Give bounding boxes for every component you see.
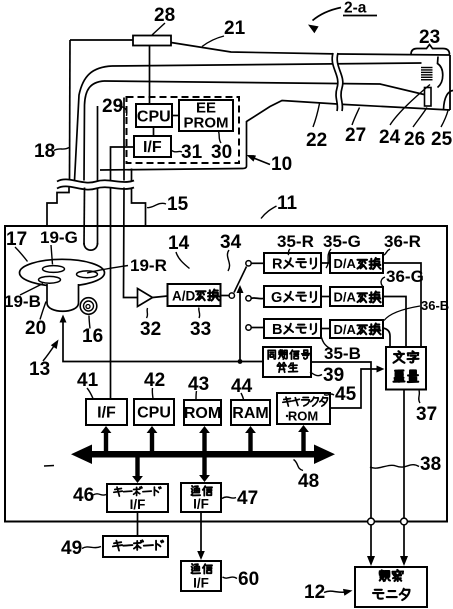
wire Bmem to D/A [321, 328, 330, 330]
svg-text:10: 10 [271, 154, 292, 175]
bus arrow down to keyboard I/F 46 [132, 456, 143, 483]
bus arrow to ROM 43 [199, 426, 210, 452]
svg-text:39: 39 [323, 365, 344, 386]
svg-text:I/F: I/F [130, 497, 146, 512]
svg-text:18: 18 [34, 141, 55, 162]
svg-text:CPU: CPU [137, 109, 171, 126]
wire char ROM to overlay with arrow [330, 369, 382, 408]
wire comm I/F to external comm I/F [200, 512, 202, 556]
bracket over tip 23 [411, 45, 450, 55]
svg-text:12: 12 [304, 582, 325, 603]
scope handle right edge [246, 121, 248, 166]
video signal wire behind dashed box (upper part) [123, 98, 125, 181]
keyboard box 49 [103, 536, 168, 557]
curved lens face at tip [438, 57, 443, 88]
wire node to R memory [251, 262, 264, 264]
svg-text:48: 48 [298, 471, 319, 492]
svg-text:15: 15 [167, 194, 189, 215]
wire CPU to EE PROM [172, 115, 179, 117]
junction dot on sync line [238, 359, 243, 364]
scope handle outer curve into cable [75, 66, 113, 181]
svg-text:46: 46 [73, 485, 94, 506]
svg-text:I/F: I/F [97, 405, 116, 422]
switch node B [246, 325, 251, 330]
svg-text:A/D: A/D [172, 289, 196, 304]
svg-text:21: 21 [224, 18, 246, 39]
scope tube bottom edge and handle right slant [247, 101, 451, 122]
svg-text:35-B: 35-B [324, 344, 361, 363]
wire amp to A/D [153, 296, 168, 298]
svg-text:14: 14 [168, 233, 190, 254]
svg-text:ROM: ROM [184, 405, 221, 422]
svg-text:I/F: I/F [193, 497, 209, 512]
connector 15 left outline [47, 188, 69, 226]
filter 19-R [77, 271, 98, 278]
svg-text:11: 11 [277, 193, 298, 214]
svg-text:30: 30 [211, 142, 232, 163]
CPU box 42 [134, 399, 174, 425]
svg-text:47: 47 [237, 488, 258, 509]
R memory box 35-R [264, 253, 321, 273]
wire D/A-G output to char overlay [383, 297, 406, 348]
signal wire from scope I/F down (upper part) [111, 147, 135, 181]
I/F box 41 [86, 399, 127, 425]
wire keyboard I/F to keyboard [137, 512, 139, 536]
wire Gmem to D/A [321, 296, 330, 298]
connector 15 right outline [132, 188, 146, 226]
switch node R [246, 261, 251, 266]
switch control wire from sync [239, 288, 241, 362]
character ROM box 45 [277, 393, 330, 424]
scope tip right edge [449, 55, 451, 110]
svg-text:16: 16 [82, 326, 103, 347]
svg-text:60: 60 [238, 569, 259, 590]
filter 19-B [39, 276, 61, 283]
ROM box 43 [184, 400, 221, 425]
svg-text:D/A: D/A [334, 290, 357, 305]
svg-text:24: 24 [379, 127, 401, 148]
sync output wire to monitor [311, 362, 371, 518]
D/A converter B 36-B [330, 320, 383, 338]
svg-text:38: 38 [420, 454, 441, 475]
svg-text:D/A: D/A [334, 322, 357, 337]
dashed controller box 10 [127, 97, 240, 163]
svg-text:45: 45 [335, 384, 357, 405]
bus arrow to I/F 41 [101, 426, 112, 452]
light guide right wall into box [97, 188, 99, 245]
svg-text:22: 22 [306, 130, 327, 151]
svg-text:20: 20 [25, 318, 46, 339]
corner lens arc 25 [444, 91, 453, 110]
light-guide right wall upper part [97, 106, 99, 181]
wire CPU to I/F [153, 127, 155, 136]
scope handle bottom edge [100, 166, 247, 170]
svg-text:B: B [272, 322, 282, 338]
switch arm 34 [234, 267, 247, 293]
connector-15 right wall above break [131, 169, 133, 181]
plug 28 [133, 36, 171, 46]
wire plug-28 drop to CPU [149, 45, 151, 104]
system bus 48 [82, 451, 324, 458]
svg-text:RAM: RAM [232, 405, 268, 422]
svg-text:33: 33 [190, 319, 211, 340]
wire D/A-R output to char overlay [383, 263, 421, 347]
svg-text:2-a: 2-a [344, 0, 367, 17]
scope handle inner line to tube tip [104, 81, 424, 95]
svg-text:25: 25 [431, 129, 453, 150]
svg-text:35-R: 35-R [277, 232, 314, 251]
keyboard I/F box 46 [107, 484, 168, 512]
scope I/F box [134, 136, 171, 157]
RAM box 44 [231, 400, 270, 425]
svg-text:17: 17 [6, 229, 27, 250]
svg-text:42: 42 [144, 370, 165, 391]
svg-text:D/A: D/A [334, 256, 357, 271]
cable break wavy band [57, 179, 134, 189]
bus arrow down to comm I/F 47 [199, 456, 210, 482]
wire D/A-B output to char overlay [383, 328, 390, 347]
svg-text:I/F: I/F [193, 576, 209, 591]
svg-text:31: 31 [181, 142, 203, 163]
scope EE PROM box [179, 100, 233, 131]
B memory box 35-B [264, 319, 321, 338]
svg-text:49: 49 [61, 538, 82, 559]
lens element 26 small rect [425, 88, 432, 107]
svg-text:19-B: 19-B [4, 292, 41, 311]
svg-text:34: 34 [220, 232, 242, 253]
scope insertion-tube top edge [171, 43, 450, 56]
D/A converter R 36-R [330, 253, 383, 273]
filter 19-G [43, 266, 65, 273]
scope handle inner curve into light guide [84, 81, 104, 181]
svg-text:36-B: 36-B [421, 298, 449, 313]
svg-text:37: 37 [416, 404, 437, 425]
svg-text:36-R: 36-R [384, 232, 421, 251]
svg-text:19-R: 19-R [130, 256, 167, 275]
sync signal generator box 39 [263, 347, 311, 377]
svg-text:PROM: PROM [184, 115, 229, 132]
character overlay box 37 [386, 347, 426, 390]
svg-text:36-G: 36-G [386, 267, 424, 286]
rotary filter wheel 17 [20, 259, 105, 286]
svg-text:ROM: ROM [288, 409, 318, 424]
svg-text:35-G: 35-G [323, 232, 361, 251]
svg-text:27: 27 [345, 125, 366, 146]
A/D converter box 33 [168, 284, 221, 306]
motor 20 body [47, 284, 79, 311]
A/D output node [221, 295, 230, 297]
D/A converter G 36-G [330, 287, 383, 306]
overlay arrow to monitor [403, 525, 405, 562]
wire node to B memory [251, 327, 264, 329]
video wire through connector down to amp [124, 188, 138, 298]
bus arrow to character ROM 45 [298, 425, 309, 452]
svg-text:G: G [271, 290, 282, 306]
scope CPU box [136, 104, 172, 127]
switch node G [246, 296, 251, 301]
svg-text:I/F: I/F [143, 139, 162, 156]
signal wire I/F-41 through connector [110, 188, 112, 400]
svg-text:32: 32 [140, 319, 161, 340]
svg-text:26: 26 [404, 129, 425, 150]
overlay node on box edge [401, 518, 408, 525]
bus arrow to CPU 42 [147, 426, 158, 452]
wire from plug 28 to handle top-left corner [70, 39, 133, 41]
svg-text:CPU: CPU [137, 405, 171, 422]
video processor box 11 [5, 226, 447, 522]
svg-text:19-G: 19-G [40, 228, 78, 247]
amplifier 32 [138, 289, 153, 307]
light guide rounded end [84, 243, 98, 250]
tube break wavy lines [332, 53, 343, 111]
cable left wire from plug corner down [69, 40, 72, 181]
G memory box 35-G [264, 286, 321, 307]
wire node to G memory [251, 297, 264, 300]
light guide left wall into box [83, 188, 86, 245]
wire Rmem to D/A [321, 262, 330, 264]
stray mark [44, 465, 54, 468]
arrow for 2-a [313, 8, 342, 21]
scope handle upper line to tube [112, 63, 422, 66]
svg-text:43: 43 [188, 374, 209, 395]
motor drive wire [63, 317, 263, 362]
lamp 16 [80, 298, 97, 315]
external comm I/F box 60 [181, 561, 221, 591]
svg-text:23: 23 [419, 27, 440, 48]
observation monitor box 12 [355, 567, 427, 607]
svg-text:13: 13 [29, 359, 50, 380]
overlay output wire [403, 390, 405, 519]
bus arrow to RAM 44 [245, 426, 256, 452]
CCD hatch block 24 [421, 68, 433, 80]
sync arrow to monitor [370, 525, 372, 562]
svg-text:R: R [272, 257, 283, 273]
sync node on box edge [368, 518, 375, 525]
comm I/F box 47 [181, 483, 221, 512]
